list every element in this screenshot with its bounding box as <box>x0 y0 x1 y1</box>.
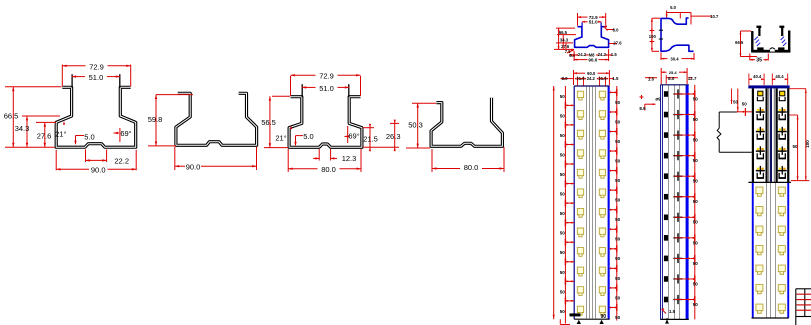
svg-text:50: 50 <box>615 217 621 222</box>
svg-text:34.3: 34.3 <box>560 38 569 43</box>
svg-text:21.5: 21.5 <box>363 135 378 144</box>
svg-text:69°: 69° <box>120 129 131 138</box>
svg-text:51.0: 51.0 <box>89 73 104 82</box>
svg-text:66.5: 66.5 <box>735 40 744 45</box>
svg-text:50: 50 <box>615 315 621 320</box>
svg-text:8.5: 8.5 <box>639 106 646 111</box>
svg-text:100: 100 <box>649 34 657 39</box>
svg-text:59.8: 59.8 <box>148 115 163 124</box>
svg-text:50: 50 <box>693 302 699 307</box>
svg-text:50: 50 <box>615 276 621 281</box>
svg-text:50: 50 <box>615 100 621 105</box>
svg-text:50: 50 <box>693 96 699 101</box>
svg-text:1.5: 1.5 <box>611 52 617 57</box>
svg-text:1.5: 1.5 <box>648 76 655 81</box>
svg-text:50: 50 <box>560 250 566 255</box>
svg-text:90: 90 <box>601 314 607 320</box>
svg-text:5.0: 5.0 <box>670 5 676 10</box>
svg-text:8.0: 8.0 <box>561 76 568 81</box>
svg-text:27.6: 27.6 <box>37 132 52 141</box>
svg-text:72.9: 72.9 <box>319 72 334 81</box>
svg-text:50: 50 <box>615 139 621 144</box>
svg-text:50: 50 <box>693 220 699 225</box>
svg-text:50: 50 <box>560 172 566 177</box>
svg-text:50: 50 <box>560 309 566 314</box>
svg-text:66.5: 66.5 <box>4 112 19 121</box>
svg-text:25.4: 25.4 <box>669 70 678 75</box>
svg-text:56.5: 56.5 <box>261 118 276 127</box>
svg-text:69°: 69° <box>348 132 359 141</box>
svg-text:8.0: 8.0 <box>668 76 675 81</box>
svg-text:21.5: 21.5 <box>598 76 607 81</box>
svg-text:90.0: 90.0 <box>91 165 106 174</box>
svg-text:50: 50 <box>615 158 621 163</box>
svg-text:12.3: 12.3 <box>342 154 357 163</box>
svg-text:50: 50 <box>560 270 566 275</box>
svg-text:50: 50 <box>693 117 699 122</box>
svg-text:66.5: 66.5 <box>559 30 568 35</box>
svg-text:50: 50 <box>560 231 566 236</box>
svg-text:50: 50 <box>742 102 748 107</box>
svg-text:80.0: 80.0 <box>464 163 479 172</box>
svg-text:90.0: 90.0 <box>186 163 201 172</box>
svg-text:90.0: 90.0 <box>588 57 597 62</box>
svg-text:12.7: 12.7 <box>688 76 697 81</box>
svg-text:50: 50 <box>693 240 699 245</box>
svg-text:35: 35 <box>756 58 762 64</box>
svg-text:80.0: 80.0 <box>321 165 336 174</box>
svg-text:50: 50 <box>693 199 699 204</box>
svg-text:34.3: 34.3 <box>15 124 30 133</box>
svg-text:21°: 21° <box>275 134 286 143</box>
svg-text:50.3: 50.3 <box>408 121 423 130</box>
svg-text:ø9: ø9 <box>655 97 661 102</box>
svg-text:50: 50 <box>560 211 566 216</box>
svg-text:50: 50 <box>560 152 566 157</box>
svg-text:50: 50 <box>560 289 566 294</box>
svg-text:24.2: 24.2 <box>578 52 587 57</box>
svg-text:8.0: 8.0 <box>613 28 619 33</box>
svg-text:50: 50 <box>693 281 699 286</box>
svg-text:1.5: 1.5 <box>612 76 619 81</box>
svg-text:24.2: 24.2 <box>598 52 607 57</box>
svg-text:26.3: 26.3 <box>386 132 401 141</box>
svg-text:51.0: 51.0 <box>319 84 334 93</box>
svg-text:1.5: 1.5 <box>669 309 676 314</box>
svg-text:50: 50 <box>615 256 621 261</box>
svg-text:10.7: 10.7 <box>710 14 719 19</box>
svg-text:50: 50 <box>615 237 621 242</box>
svg-text:21.5: 21.5 <box>576 76 585 81</box>
svg-text:50: 50 <box>693 179 699 184</box>
svg-text:50: 50 <box>615 198 621 203</box>
svg-text:5.0: 5.0 <box>84 133 94 142</box>
svg-text:5.0: 5.0 <box>303 132 313 141</box>
svg-text:100: 100 <box>805 140 810 148</box>
svg-text:50: 50 <box>733 99 739 104</box>
svg-text:50: 50 <box>560 94 566 99</box>
svg-text:40.4: 40.4 <box>753 74 762 79</box>
svg-text:72.9: 72.9 <box>89 62 104 71</box>
svg-text:22.2: 22.2 <box>114 156 129 165</box>
svg-text:40.4: 40.4 <box>775 74 784 79</box>
svg-text:50: 50 <box>560 113 566 118</box>
svg-text:21°: 21° <box>55 130 66 139</box>
svg-text:24.2: 24.2 <box>587 76 596 81</box>
svg-text:50: 50 <box>615 119 621 124</box>
svg-text:50: 50 <box>693 261 699 266</box>
svg-text:50: 50 <box>560 192 566 197</box>
svg-text:50: 50 <box>615 295 621 300</box>
svg-text:27.6: 27.6 <box>613 41 622 46</box>
svg-text:50: 50 <box>615 178 621 183</box>
svg-text:50: 50 <box>693 158 699 163</box>
svg-text:50: 50 <box>560 133 566 138</box>
svg-text:50: 50 <box>792 144 798 149</box>
svg-text:30.4: 30.4 <box>670 57 679 62</box>
svg-text:50: 50 <box>693 138 699 143</box>
svg-text:51.0: 51.0 <box>589 20 598 25</box>
svg-text:8.0: 8.0 <box>569 53 575 58</box>
